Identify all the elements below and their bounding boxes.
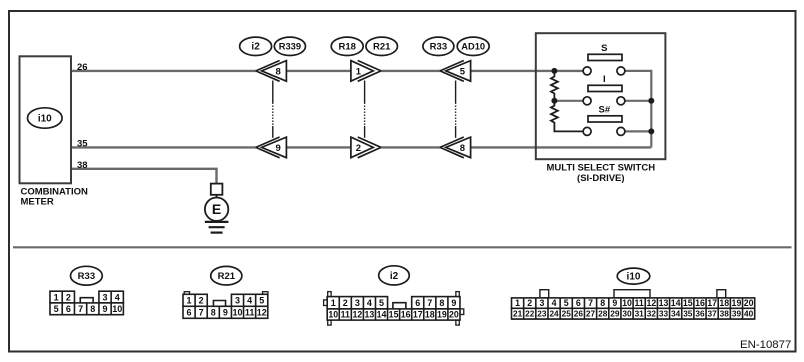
svg-text:18: 18 xyxy=(425,309,435,319)
resistor ladder left line (resistor 2) and wire to S-hash left contact xyxy=(551,101,587,132)
wire between connectors row1 a xyxy=(287,70,351,72)
svg-text:R33: R33 xyxy=(430,42,447,53)
connector symbol pin 5 (R33/AD10) xyxy=(440,61,471,82)
wire between connectors row2 b xyxy=(381,146,441,148)
svg-text:26: 26 xyxy=(574,308,584,318)
pinout oval R21 xyxy=(211,266,242,285)
svg-text:7: 7 xyxy=(427,298,432,308)
svg-text:2: 2 xyxy=(343,298,348,308)
resistor ladder left line (resistor 1) xyxy=(551,71,558,101)
svg-text:i10: i10 xyxy=(38,113,52,124)
connector oval R18 xyxy=(331,37,363,55)
wire I left contact xyxy=(554,100,587,102)
multi select switch box xyxy=(536,33,666,159)
svg-text:15: 15 xyxy=(683,298,693,308)
svg-text:9: 9 xyxy=(223,308,228,318)
svg-text:I: I xyxy=(603,74,606,85)
svg-text:12: 12 xyxy=(646,298,656,308)
svg-text:27: 27 xyxy=(586,308,596,318)
section divider line xyxy=(13,246,792,248)
svg-text:9: 9 xyxy=(612,298,617,308)
diagram reference number EN-10877 xyxy=(740,339,791,351)
pinout grid R33 xyxy=(50,291,123,315)
svg-text:38: 38 xyxy=(720,308,730,318)
svg-text:33: 33 xyxy=(659,308,669,318)
svg-text:7: 7 xyxy=(588,298,593,308)
svg-text:13: 13 xyxy=(659,298,669,308)
svg-text:36: 36 xyxy=(695,308,705,318)
connector symbol pin 9 (i2/R339) xyxy=(256,137,287,158)
svg-text:6: 6 xyxy=(415,298,420,308)
junction dot left-line/I xyxy=(551,98,557,104)
svg-text:8: 8 xyxy=(600,298,605,308)
svg-text:22: 22 xyxy=(525,308,535,318)
svg-text:i2: i2 xyxy=(390,271,399,282)
pinout grid i10 xyxy=(512,290,755,319)
svg-text:16: 16 xyxy=(401,309,411,319)
junction dot right-line/S-hash xyxy=(648,128,654,134)
svg-text:6: 6 xyxy=(576,298,581,308)
svg-text:10: 10 xyxy=(112,304,122,314)
svg-text:7: 7 xyxy=(199,308,204,318)
connector symbol pin 2 (R18/R21) xyxy=(351,137,381,158)
pinout grid i2 xyxy=(324,292,464,326)
svg-text:R21: R21 xyxy=(373,42,391,53)
svg-text:2: 2 xyxy=(356,143,361,154)
svg-text:5: 5 xyxy=(460,66,466,77)
svg-text:4: 4 xyxy=(115,292,120,302)
svg-text:11: 11 xyxy=(245,308,255,318)
combination meter caption xyxy=(21,186,89,207)
svg-text:i10: i10 xyxy=(627,272,641,283)
svg-text:26: 26 xyxy=(77,62,88,73)
wire I right contact xyxy=(621,100,651,102)
svg-text:10: 10 xyxy=(328,309,338,319)
svg-text:38: 38 xyxy=(77,160,88,171)
pinout grid R21 xyxy=(183,292,268,319)
connector symbol pin 8 (R33/AD10) xyxy=(440,137,471,158)
svg-text:1: 1 xyxy=(356,66,362,77)
connector oval i2 xyxy=(240,37,272,55)
wire 26 label xyxy=(77,62,88,73)
svg-text:MULTI SELECT SWITCH: MULTI SELECT SWITCH xyxy=(547,163,656,174)
svg-text:14: 14 xyxy=(671,298,681,308)
svg-text:9: 9 xyxy=(276,143,281,154)
svg-text:17: 17 xyxy=(707,298,717,308)
svg-text:31: 31 xyxy=(635,308,645,318)
switch S-hash xyxy=(583,105,625,136)
svg-text:21: 21 xyxy=(513,308,523,318)
svg-text:R339: R339 xyxy=(279,42,301,52)
wire 35 label xyxy=(77,138,88,149)
svg-text:5: 5 xyxy=(379,298,384,308)
svg-text:16: 16 xyxy=(695,298,705,308)
svg-text:19: 19 xyxy=(732,298,742,308)
svg-text:10: 10 xyxy=(232,308,242,318)
connector oval R21 xyxy=(366,37,398,55)
svg-text:4: 4 xyxy=(247,296,252,306)
svg-text:11: 11 xyxy=(341,309,350,319)
wire S-hash right contact xyxy=(621,130,651,132)
pinout oval i10 xyxy=(617,268,650,284)
svg-text:8: 8 xyxy=(439,298,444,308)
switch S xyxy=(583,43,625,75)
wire S right contact to right line xyxy=(621,71,651,147)
connector oval R33 xyxy=(423,37,454,55)
svg-text:2: 2 xyxy=(66,292,71,302)
svg-text:23: 23 xyxy=(537,308,547,318)
link line i2/R339 xyxy=(272,81,274,138)
svg-text:METER: METER xyxy=(21,197,54,208)
svg-text:12: 12 xyxy=(257,308,267,318)
svg-text:7: 7 xyxy=(78,304,83,314)
svg-text:S#: S# xyxy=(598,105,610,116)
svg-text:20: 20 xyxy=(744,298,754,308)
svg-text:4: 4 xyxy=(367,298,372,308)
svg-text:5: 5 xyxy=(259,296,264,306)
svg-text:30: 30 xyxy=(622,308,632,318)
svg-text:3: 3 xyxy=(539,298,544,308)
svg-text:15: 15 xyxy=(389,309,399,319)
svg-text:11: 11 xyxy=(635,298,644,308)
svg-text:29: 29 xyxy=(610,308,620,318)
wire 26 from combination meter to connector i2/R339 xyxy=(71,70,256,72)
svg-text:6: 6 xyxy=(66,304,71,314)
svg-text:i2: i2 xyxy=(251,42,260,53)
connector oval i10 inside combination meter xyxy=(28,108,63,128)
svg-text:5: 5 xyxy=(54,304,59,314)
wire row2 into switch box xyxy=(469,146,651,148)
svg-text:3: 3 xyxy=(235,296,240,306)
switch box caption xyxy=(547,163,656,184)
svg-text:8: 8 xyxy=(90,304,95,314)
svg-text:40: 40 xyxy=(744,308,754,318)
svg-text:1: 1 xyxy=(54,292,59,302)
wire row1 into switch box xyxy=(469,70,583,72)
svg-text:1: 1 xyxy=(187,296,192,306)
pinout oval i2 xyxy=(379,266,410,285)
wire between connectors row1 b xyxy=(381,70,441,72)
pinout oval R33 xyxy=(71,266,103,285)
svg-text:19: 19 xyxy=(437,309,447,319)
svg-text:28: 28 xyxy=(598,308,608,318)
svg-text:8: 8 xyxy=(460,143,465,154)
svg-text:8: 8 xyxy=(276,66,281,77)
svg-text:R33: R33 xyxy=(78,271,95,282)
link line R33/AD10 xyxy=(455,81,457,138)
svg-text:9: 9 xyxy=(451,298,456,308)
svg-text:4: 4 xyxy=(552,298,557,308)
connector oval AD10 xyxy=(457,37,489,55)
svg-text:25: 25 xyxy=(562,308,572,318)
svg-text:1: 1 xyxy=(331,298,336,308)
svg-text:37: 37 xyxy=(708,308,718,318)
svg-text:EN-10877: EN-10877 xyxy=(740,339,791,351)
svg-text:S: S xyxy=(601,43,607,54)
junction dot right-line/I xyxy=(648,98,654,104)
svg-text:34: 34 xyxy=(671,308,681,318)
svg-text:5: 5 xyxy=(564,298,569,308)
svg-text:17: 17 xyxy=(413,309,423,319)
svg-text:39: 39 xyxy=(732,308,742,318)
svg-text:14: 14 xyxy=(377,309,387,319)
svg-text:32: 32 xyxy=(647,308,657,318)
svg-text:18: 18 xyxy=(719,298,729,308)
ground E xyxy=(205,184,229,233)
svg-text:COMBINATION: COMBINATION xyxy=(21,186,89,197)
switch I xyxy=(583,74,625,105)
connector oval R339 xyxy=(274,37,305,55)
connector symbol pin 1 (R18/R21) xyxy=(351,61,381,82)
combination meter box xyxy=(20,56,72,183)
svg-text:9: 9 xyxy=(103,304,108,314)
svg-text:10: 10 xyxy=(622,298,632,308)
svg-text:20: 20 xyxy=(449,309,459,319)
svg-text:35: 35 xyxy=(77,138,88,149)
svg-text:R21: R21 xyxy=(218,271,236,282)
svg-text:3: 3 xyxy=(103,292,108,302)
svg-text:12: 12 xyxy=(352,309,362,319)
svg-text:13: 13 xyxy=(365,309,375,319)
svg-text:(SI-DRIVE): (SI-DRIVE) xyxy=(577,173,625,184)
svg-text:8: 8 xyxy=(211,308,216,318)
svg-text:6: 6 xyxy=(187,308,192,318)
wire 38 label xyxy=(77,160,88,171)
link line R18/R21 xyxy=(364,81,366,138)
wire 35 from combination meter to connector i2/R339 xyxy=(71,146,256,148)
svg-text:2: 2 xyxy=(527,298,532,308)
svg-text:AD10: AD10 xyxy=(461,42,485,52)
svg-text:2: 2 xyxy=(199,296,204,306)
junction dot wire26/left-line xyxy=(551,68,557,74)
wire 38 from combination meter to ground xyxy=(71,169,218,184)
wire between connectors row2 a xyxy=(287,146,351,148)
svg-text:3: 3 xyxy=(355,298,360,308)
svg-text:R18: R18 xyxy=(338,42,355,53)
connector symbol pin 8 (i2/R339) xyxy=(256,61,287,82)
svg-text:35: 35 xyxy=(683,308,693,318)
svg-text:1: 1 xyxy=(515,298,520,308)
svg-text:24: 24 xyxy=(549,308,559,318)
svg-text:E: E xyxy=(212,201,221,217)
